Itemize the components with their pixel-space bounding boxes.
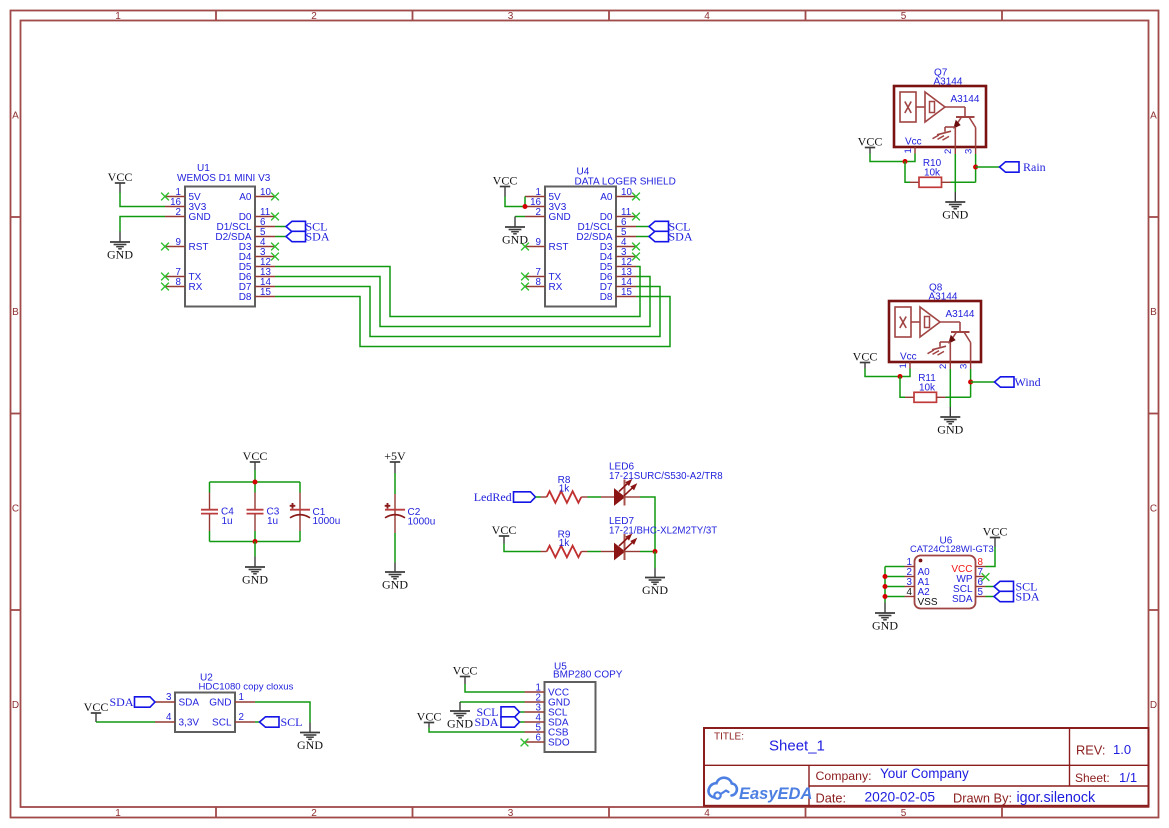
U4 pin 11 (D0) — [600, 207, 640, 223]
U1 pin 11 (D0) — [239, 207, 279, 223]
svg-text:Rain: Rain — [1023, 160, 1046, 174]
U1 pin 9 (RST) — [161, 237, 208, 253]
wire — [505, 197, 525, 207]
hall sensor Q8 (A3144) — [889, 283, 981, 363]
svg-text:GND: GND — [382, 578, 408, 592]
U1 pin 4 (D3) — [239, 237, 279, 253]
svg-text:GND: GND — [297, 738, 323, 752]
U4 pin 7 (TX) — [521, 267, 562, 283]
svg-text:VCC: VCC — [417, 710, 442, 724]
svg-text:D8: D8 — [239, 292, 252, 303]
ground (Q8) — [937, 407, 963, 437]
wire — [949, 369, 951, 407]
U2 pin 1 (GND) — [209, 692, 255, 709]
svg-text:A: A — [1150, 111, 1157, 122]
U1 pin 3 (D4) — [239, 247, 279, 263]
svg-text:Vcc: Vcc — [900, 352, 917, 363]
U6 pin 5 (SDA) — [952, 587, 986, 605]
svg-text:9: 9 — [536, 237, 541, 248]
U1 pin 7 (TX) — [161, 267, 202, 283]
svg-text:6: 6 — [536, 733, 542, 744]
U4 pin 5 (D2/SDA) — [576, 227, 636, 243]
wire — [255, 702, 310, 723]
svg-text:igor.silenock: igor.silenock — [1017, 790, 1097, 806]
wire — [654, 552, 656, 569]
svg-text:1k: 1k — [559, 484, 571, 495]
LED LED7 (17-21/BHC-XL2M2TY/3T) — [601, 516, 717, 560]
power flag VCC (U2) — [84, 700, 109, 722]
ground (U6) — [872, 603, 898, 633]
resistor R9 (1k) — [541, 530, 588, 558]
IC U2 (HDC1080 copy cloxus) — [175, 673, 294, 733]
svg-text:2: 2 — [176, 207, 181, 218]
svg-text:1: 1 — [898, 363, 909, 368]
wire — [636, 236, 649, 238]
svg-text:D8: D8 — [600, 292, 613, 303]
svg-text:1: 1 — [239, 692, 244, 703]
svg-text:CAT24C128WI-GT3: CAT24C128WI-GT3 — [910, 543, 994, 554]
wire — [255, 721, 260, 723]
svg-text:SDA: SDA — [179, 698, 200, 709]
wire — [885, 566, 905, 568]
ground (C2) — [382, 563, 408, 592]
svg-text:VCC: VCC — [108, 170, 133, 184]
svg-text:3: 3 — [508, 11, 514, 22]
svg-text:SCL: SCL — [281, 715, 303, 729]
Q7 pin 2 — [943, 146, 955, 154]
U5 pin 5 (CSB) — [525, 723, 569, 739]
wire — [429, 728, 525, 733]
svg-text:LedRed: LedRed — [474, 490, 512, 504]
junction — [883, 594, 888, 599]
wire — [254, 482, 256, 493]
wire — [900, 369, 910, 377]
svg-text:SCL: SCL — [212, 718, 232, 729]
Q7 pin 3 — [963, 146, 975, 154]
wire — [254, 470, 256, 482]
U4 pin 14 (D7) — [600, 277, 636, 293]
U4 pin 16 (3V3) — [525, 197, 567, 213]
wire — [870, 154, 905, 162]
wire — [209, 531, 211, 542]
svg-text:A0: A0 — [600, 192, 613, 203]
wire — [636, 226, 649, 228]
U6 pin 7 (WP) — [956, 567, 989, 585]
svg-text:2: 2 — [311, 808, 317, 819]
svg-text:GND: GND — [502, 233, 528, 247]
U2 pin 3 (SDA) — [155, 692, 199, 709]
IC U5 (BMP280 COPY) — [545, 662, 623, 753]
U1 pin 15 (D8) — [239, 287, 275, 303]
U1 pin 10 (A0) — [239, 187, 279, 203]
svg-text:A0: A0 — [239, 192, 252, 203]
junction — [253, 539, 258, 544]
wire — [986, 586, 995, 588]
svg-text:3: 3 — [508, 808, 514, 819]
svg-text:TITLE:: TITLE: — [714, 732, 744, 743]
U4 pin 8 (RX) — [521, 277, 563, 293]
svg-text:SDA: SDA — [1016, 590, 1040, 604]
svg-text:A3144: A3144 — [951, 94, 980, 105]
IC U6 (CAT24C128WI-GT3) — [910, 536, 994, 609]
junction — [653, 549, 658, 554]
net flag SDA (U6) — [994, 590, 1040, 604]
svg-text:+5V: +5V — [384, 449, 406, 463]
svg-text:10: 10 — [621, 187, 632, 198]
svg-text:Wind: Wind — [1015, 375, 1041, 389]
power flag VCC (Q8) — [853, 350, 878, 369]
U1 pin 14 (D7) — [239, 277, 275, 293]
net flag LedRed — [474, 490, 536, 504]
net flag SCL (U6) — [994, 580, 1038, 594]
svg-text:1000u: 1000u — [408, 517, 436, 528]
svg-text:VCC: VCC — [492, 523, 517, 537]
U1 pin 12 (D5) — [239, 257, 275, 273]
wire — [905, 162, 910, 183]
svg-text:SDA: SDA — [474, 715, 498, 729]
svg-text:A3144: A3144 — [929, 292, 958, 303]
wire — [120, 217, 165, 232]
U6 pin 4 (VSS) — [905, 587, 938, 608]
wire — [986, 596, 995, 598]
net flag SCL (U5) — [476, 705, 519, 719]
svg-text:10k: 10k — [919, 382, 936, 393]
svg-text:A3144: A3144 — [946, 309, 975, 320]
wire — [275, 277, 650, 327]
wire — [524, 197, 526, 207]
junction — [523, 204, 528, 209]
svg-text:Sheet_1: Sheet_1 — [769, 738, 825, 755]
svg-text:GND: GND — [549, 212, 571, 223]
wire — [275, 236, 286, 238]
junction — [903, 159, 908, 164]
svg-text:10: 10 — [260, 187, 271, 198]
svg-text:BMP280 COPY: BMP280 COPY — [553, 670, 623, 681]
svg-text:8: 8 — [176, 277, 182, 288]
wire — [900, 377, 905, 398]
wire — [976, 166, 1000, 168]
svg-text:4: 4 — [907, 587, 913, 598]
svg-text:RX: RX — [549, 282, 563, 293]
svg-text:10k: 10k — [924, 167, 941, 178]
svg-text:1: 1 — [903, 148, 914, 153]
svg-text:GND: GND — [447, 717, 473, 731]
svg-text:8: 8 — [536, 277, 542, 288]
svg-text:A: A — [12, 111, 19, 122]
capacitor C2 (1000u, polarized) — [385, 494, 436, 533]
wire — [394, 473, 396, 494]
svg-text:Vcc: Vcc — [905, 137, 922, 148]
junction — [253, 480, 258, 485]
wire — [951, 181, 976, 183]
svg-text:4: 4 — [166, 712, 172, 723]
wire — [254, 531, 256, 542]
wire — [299, 482, 301, 493]
resistor R8 (1k) — [541, 475, 588, 503]
svg-text:Your Company: Your Company — [880, 766, 969, 781]
wire — [520, 721, 525, 723]
wire — [515, 216, 525, 218]
resistor R11 (10k) — [905, 373, 946, 402]
svg-text:GND: GND — [209, 698, 231, 709]
U2 pin 2 (SCL) — [212, 712, 255, 729]
svg-text:1000u: 1000u — [313, 516, 341, 527]
U1 pin 5 (D2/SDA) — [215, 227, 275, 243]
svg-text:C: C — [12, 504, 19, 515]
U5 pin 3 (SCL) — [525, 703, 568, 719]
svg-text:2020-02-05: 2020-02-05 — [865, 790, 936, 805]
IC U4 (DATA LOGER SHIELD) — [545, 167, 676, 307]
wire — [865, 369, 900, 377]
svg-text:1u: 1u — [267, 516, 278, 527]
svg-text:SDO: SDO — [548, 738, 570, 749]
svg-text:Company:: Company: — [816, 769, 872, 783]
net flag SCL (U2) — [260, 715, 303, 729]
ground (Q7) — [942, 192, 968, 222]
wire — [640, 497, 655, 552]
ground (LED) — [642, 568, 668, 597]
junction — [973, 165, 978, 170]
net flag SDA (U1) — [286, 230, 330, 244]
ground (U1) — [107, 232, 133, 262]
wire — [946, 396, 971, 398]
svg-text:9: 9 — [176, 237, 181, 248]
svg-text:DATA LOGER SHIELD: DATA LOGER SHIELD — [575, 177, 676, 188]
wire — [275, 297, 670, 347]
net flag SCL (U1) — [286, 220, 328, 234]
net flag Wind — [995, 375, 1041, 389]
svg-text:GND: GND — [242, 573, 268, 587]
wire — [460, 701, 525, 703]
power flag VCC (U1) — [108, 170, 133, 192]
svg-text:B: B — [1150, 307, 1157, 318]
hall sensor Q7 (A3144) — [894, 68, 986, 148]
svg-text:17-21SURC/S530-A2/TR8: 17-21SURC/S530-A2/TR8 — [609, 471, 723, 482]
Q8 pin 2 — [938, 361, 950, 369]
U6 pin 6 (SCL) — [953, 577, 985, 595]
wire — [275, 226, 286, 228]
svg-text:2: 2 — [311, 11, 317, 22]
wire — [394, 533, 396, 563]
title block — [704, 728, 1149, 806]
svg-text:SDA: SDA — [306, 230, 330, 244]
svg-text:HDC1080 copy cloxus: HDC1080 copy cloxus — [199, 682, 294, 693]
EasyEDA logo — [709, 778, 813, 803]
resistor R10 (10k) — [910, 158, 951, 187]
wire — [640, 551, 655, 553]
svg-text:1u: 1u — [222, 516, 233, 527]
net flag SCL (U4) — [649, 220, 691, 234]
U4 pin 3 (D4) — [600, 247, 640, 263]
wire — [970, 369, 972, 397]
wire — [120, 193, 165, 207]
svg-text:17-21/BHC-XL2M2TY/3T: 17-21/BHC-XL2M2TY/3T — [609, 526, 717, 537]
U6 pin 2 (A1) — [905, 567, 931, 588]
wire — [465, 684, 525, 692]
wire — [209, 482, 211, 493]
svg-text:5: 5 — [978, 587, 984, 598]
wire — [210, 481, 301, 483]
svg-text:Sheet:: Sheet: — [1075, 771, 1110, 785]
svg-text:D: D — [1150, 700, 1157, 711]
U5 pin 6 (SDO) — [521, 733, 570, 749]
svg-text:4: 4 — [704, 11, 710, 22]
svg-text:REV:: REV: — [1076, 742, 1105, 757]
wire — [96, 721, 155, 723]
U5 pin 2 (GND) — [525, 693, 571, 709]
svg-text:GND: GND — [189, 212, 211, 223]
svg-text:WEMOS D1 MINI V3: WEMOS D1 MINI V3 — [177, 173, 271, 184]
svg-text:2: 2 — [943, 149, 954, 154]
svg-text:3: 3 — [958, 364, 969, 369]
junction — [968, 380, 973, 385]
net flag SDA (U4) — [649, 230, 693, 244]
svg-text:2: 2 — [536, 207, 541, 218]
svg-text:VCC: VCC — [453, 664, 478, 678]
U4 pin 2 (GND) — [525, 207, 571, 223]
U6 pin 8 (VCC) — [951, 557, 985, 575]
power flag VCC (LED7) — [492, 523, 517, 543]
svg-text:GND: GND — [937, 423, 963, 437]
U1 pin 1 (5V) — [161, 187, 201, 203]
wire — [520, 711, 525, 713]
net flag SDA (U2) — [109, 695, 155, 709]
wire — [986, 547, 996, 567]
svg-text:VCC: VCC — [243, 449, 268, 463]
U1 pin 6 (D1/SCL) — [216, 217, 275, 233]
wire — [885, 596, 905, 598]
wire — [588, 551, 602, 553]
U4 pin 10 (A0) — [600, 187, 640, 203]
power flag VCC (U6) — [983, 525, 1008, 547]
svg-text:A3144: A3144 — [934, 77, 963, 88]
svg-text:5: 5 — [901, 808, 907, 819]
svg-text:EasyEDA: EasyEDA — [739, 785, 812, 803]
U4 pin 15 (D8) — [600, 287, 636, 303]
svg-text:VCC: VCC — [84, 700, 109, 714]
wire — [885, 586, 905, 588]
wire — [885, 576, 905, 578]
U2 pin 4 (3,3V) — [155, 712, 199, 729]
U4 pin 6 (D1/SCL) — [577, 217, 636, 233]
U4 pin 12 (D5) — [600, 257, 636, 273]
wire — [254, 542, 256, 557]
U1 pin 8 (RX) — [161, 277, 203, 293]
svg-text:3: 3 — [166, 692, 172, 703]
ground (U2) — [297, 723, 323, 753]
wire — [275, 267, 640, 317]
wire — [975, 154, 977, 182]
Q8 pin 3 — [958, 361, 970, 369]
wire — [210, 541, 301, 543]
wire — [884, 567, 886, 603]
svg-text:D: D — [12, 700, 19, 711]
wire — [275, 287, 660, 337]
ground (U4) — [502, 217, 528, 247]
svg-text:1: 1 — [115, 11, 121, 22]
svg-text:RX: RX — [189, 282, 203, 293]
capacitor C3 (1u) — [247, 493, 280, 532]
svg-text:GND: GND — [942, 208, 968, 222]
ground (U5) — [447, 702, 473, 731]
wire — [905, 154, 915, 162]
svg-text:VCC: VCC — [983, 525, 1008, 539]
svg-text:4: 4 — [704, 808, 710, 819]
U5 pin 4 (SDA) — [525, 713, 569, 729]
U6 pin 1 (A0) — [905, 557, 931, 578]
svg-text:1k: 1k — [559, 538, 571, 549]
svg-text:3,3V: 3,3V — [179, 718, 200, 729]
svg-text:GND: GND — [642, 583, 668, 597]
U1 pin 2 (GND) — [165, 207, 211, 223]
junction — [898, 374, 903, 379]
svg-text:5: 5 — [901, 11, 907, 22]
IC U1 (WEMOS D1 MINI V3) — [177, 163, 271, 307]
capacitor C4 (1u) — [201, 493, 234, 532]
Q7 pin 1 (Vcc) — [903, 147, 915, 154]
svg-text:VCC: VCC — [853, 350, 878, 364]
svg-text:VSS: VSS — [918, 597, 938, 608]
capacitor C1 (1000u, polarized) — [290, 493, 341, 532]
svg-text:SDA: SDA — [669, 230, 693, 244]
wire — [536, 496, 541, 498]
svg-text:RST: RST — [549, 242, 569, 253]
U1 pin 16 (3V3) — [165, 197, 207, 213]
U5 pin 1 (VCC) — [525, 683, 570, 699]
svg-text:SDA: SDA — [952, 594, 973, 605]
wire — [504, 544, 541, 552]
power flag VCC (Q7) — [858, 135, 883, 154]
svg-text:VCC: VCC — [858, 135, 883, 149]
svg-text:Date:: Date: — [816, 791, 847, 806]
svg-text:1/1: 1/1 — [1119, 770, 1137, 785]
U1 pin 13 (D6) — [239, 267, 275, 283]
wire — [588, 496, 602, 498]
svg-text:B: B — [12, 307, 19, 318]
svg-text:RST: RST — [189, 242, 209, 253]
wire — [971, 381, 995, 383]
U6 pin 3 (A2) — [905, 577, 931, 598]
U4 pin 4 (D3) — [600, 237, 640, 253]
net flag SDA (U5) — [474, 715, 519, 729]
junction — [883, 574, 888, 579]
svg-text:2: 2 — [938, 364, 949, 369]
power flag VCC (U4) — [493, 174, 518, 197]
svg-text:Drawn By:: Drawn By: — [953, 791, 1012, 806]
LED LED6 (17-21SURC/S530-A2/TR8) — [601, 462, 723, 506]
svg-text:1: 1 — [115, 808, 121, 819]
svg-text:GND: GND — [107, 248, 133, 262]
net flag Rain — [1000, 160, 1046, 174]
svg-text:2: 2 — [239, 712, 244, 723]
svg-text:1.0: 1.0 — [1113, 742, 1131, 757]
svg-text:GND: GND — [872, 619, 898, 633]
U4 pin 1 (5V) — [525, 187, 561, 203]
svg-text:VCC: VCC — [493, 174, 518, 188]
power flag +5V (C2) — [384, 449, 406, 473]
svg-text:15: 15 — [621, 287, 632, 298]
U4 pin 13 (D6) — [600, 267, 636, 283]
power flag VCC (cap bank) — [243, 449, 268, 470]
svg-text:15: 15 — [260, 287, 271, 298]
U4 pin 9 (RST) — [521, 237, 568, 253]
svg-text:SDA: SDA — [109, 695, 133, 709]
power flag VCC (U5 pin5) — [417, 710, 442, 728]
svg-text:C: C — [1150, 504, 1157, 515]
power flag VCC (U5 pin1) — [453, 664, 478, 684]
Q8 pin 1 (Vcc) — [898, 362, 910, 369]
junction — [883, 584, 888, 589]
